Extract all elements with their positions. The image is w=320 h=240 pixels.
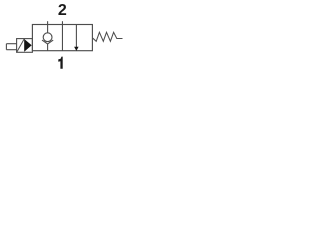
valve body xyxy=(32,25,92,51)
solenoid box xyxy=(17,39,33,53)
port 1 label xyxy=(58,57,62,69)
check valve ball xyxy=(43,33,52,42)
position divider with port 2 stub xyxy=(61,21,63,51)
connector top lead xyxy=(6,43,16,45)
check valve lower line xyxy=(47,44,49,51)
check valve upper line xyxy=(47,21,49,33)
flow path arrow shaft xyxy=(75,25,77,48)
solenoid triangle xyxy=(24,39,32,52)
solenoid diagonal xyxy=(17,39,25,53)
connector bottom lead xyxy=(6,49,16,51)
check valve seat xyxy=(42,40,53,44)
svg-text:2: 2 xyxy=(58,2,67,19)
spring xyxy=(93,32,123,41)
background xyxy=(0,0,127,79)
connector left bar xyxy=(5,44,7,50)
flow path arrowhead xyxy=(74,47,79,51)
